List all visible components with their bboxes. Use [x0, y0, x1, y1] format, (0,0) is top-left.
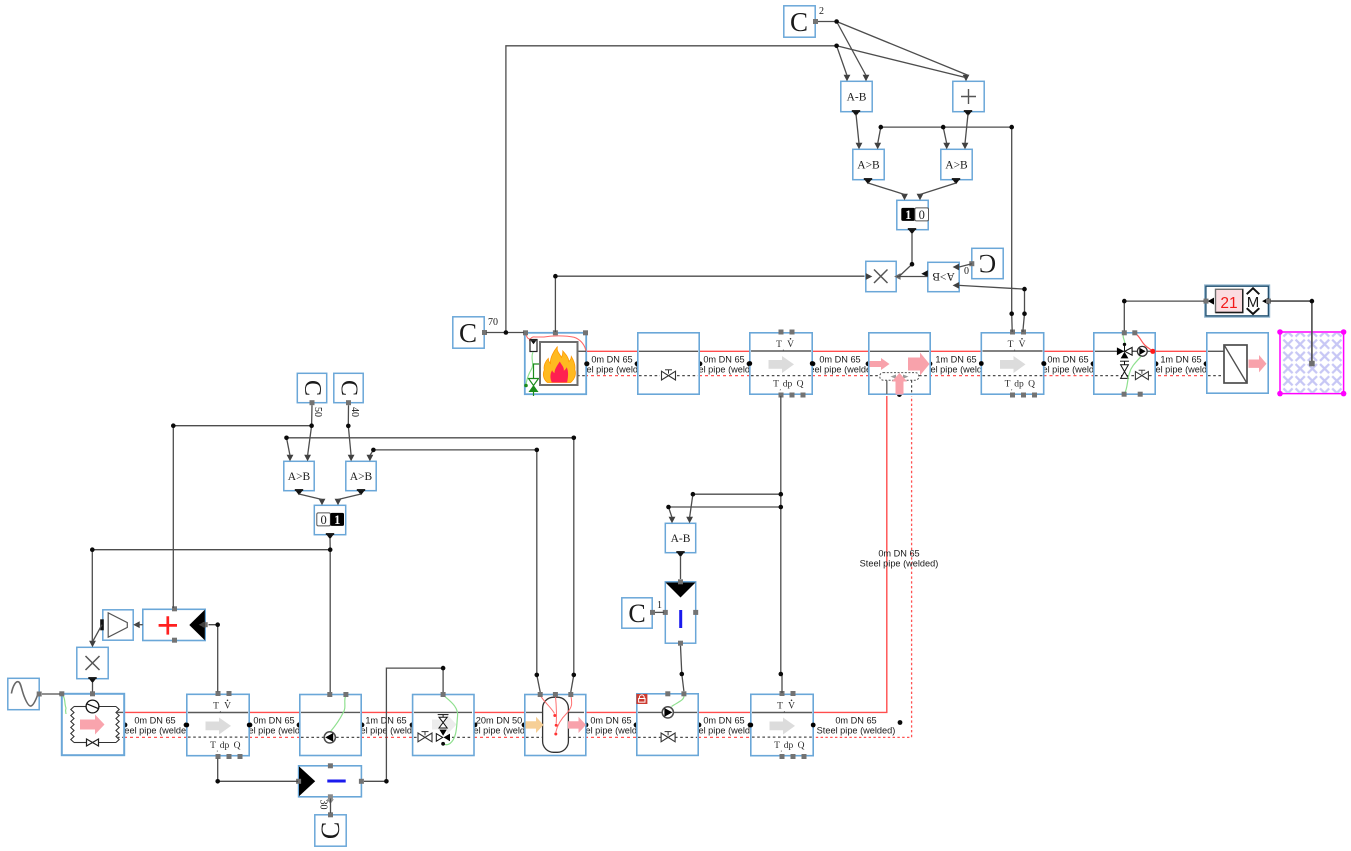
- node pipe port: [123, 723, 128, 728]
- comparator A>B (bottom left): [284, 455, 314, 496]
- wire return pipe: [1044, 375, 1095, 377]
- wire supply pipe: [1152, 350, 1207, 352]
- wire PLUS out to A>B right: [965, 114, 968, 144]
- wire display D2 bottom to C30: [330, 799, 332, 814]
- wire sensor S3 T out to PLUS2: [209, 625, 218, 692]
- node junction: [691, 492, 696, 497]
- svg-text:20m DN 50: 20m DN 50: [476, 716, 522, 726]
- node junction: [910, 262, 915, 267]
- svg-text:0m DN 65: 0m DN 65: [878, 549, 919, 559]
- wire supply pipe: [585, 711, 637, 713]
- node pipe port: [928, 361, 933, 366]
- svg-text:Steel pipe (welded): Steel pipe (welded): [116, 725, 195, 735]
- node pipe port: [585, 361, 590, 366]
- sensor S4 (bottom row second sensor): [748, 691, 815, 759]
- pipe return top row (red dashed segments): [585, 375, 1207, 377]
- wire C50 out through rail to A>B: [308, 405, 312, 455]
- svg-text:0m DN 65: 0m DN 65: [590, 716, 631, 726]
- display D2 (horizontal display with blue dash): [296, 763, 364, 804]
- heat-pump HP1: [59, 691, 124, 755]
- node junction: [535, 448, 540, 453]
- node pipe port: [866, 361, 871, 366]
- node junction: [779, 492, 784, 497]
- svg-text:A-B: A-B: [671, 533, 691, 545]
- comparator A>B (top right): [941, 143, 972, 184]
- node junction: [284, 436, 289, 441]
- svg-text:A-B: A-B: [847, 92, 867, 104]
- svg-text:40: 40: [349, 407, 360, 417]
- node junction: [779, 672, 784, 677]
- node junction: [879, 125, 884, 130]
- svg-text:C: C: [459, 318, 477, 348]
- wire return pipe: [1152, 375, 1207, 377]
- wire return pipe: [698, 736, 751, 738]
- svg-text:30: 30: [318, 800, 329, 810]
- svg-text:A>B: A>B: [288, 471, 311, 483]
- wire tank T out rail2: [287, 438, 574, 692]
- node pipe port: [698, 361, 703, 366]
- svg-text:C: C: [979, 249, 996, 278]
- wire A>B1 out to switch: [868, 183, 905, 195]
- svg-text:2: 2: [819, 6, 824, 17]
- wire C40 out to A>B: [348, 405, 351, 455]
- wire supply pipe: [812, 350, 869, 352]
- pump P1 (return pump block): [300, 692, 361, 756]
- pipe supply top row (red solid segments): [585, 350, 1207, 352]
- node junction: [215, 779, 220, 784]
- node pipe port: [810, 723, 815, 728]
- pipe supply bottom row (red solid segments): [124, 711, 751, 713]
- sensor S1 (top row T,V sensor): [747, 330, 814, 398]
- node pipe port: [1154, 361, 1159, 366]
- wire boiler top to X input: [555, 276, 864, 332]
- wire top rail to PLUS input: [837, 46, 966, 78]
- constant C70 (boiler setpoint): [453, 317, 498, 348]
- comparator A<B (rotated 180): [921, 262, 959, 291]
- node junction: [90, 547, 95, 552]
- svg-text:A>B: A>B: [350, 471, 373, 483]
- svg-text:21: 21: [1220, 295, 1237, 312]
- wire switch out down: [899, 233, 912, 277]
- svg-text:C: C: [316, 822, 345, 839]
- switch SW1 (1|0 selector): [897, 194, 929, 234]
- node pipe port: [410, 723, 415, 728]
- node junction: [572, 436, 577, 441]
- node pipe port: [1204, 361, 1209, 366]
- node pipe port: [1091, 361, 1096, 366]
- tee T1 (junction block with pink arrows): [869, 333, 930, 395]
- svg-text:0: 0: [320, 513, 326, 527]
- svg-text:1: 1: [334, 513, 340, 527]
- wire mixer M1 to actuator M21: [1124, 301, 1204, 330]
- wire sensor S2 to rail y127: [1011, 127, 1014, 332]
- node pipe port: [697, 723, 702, 728]
- node junction: [834, 19, 839, 24]
- node pipe port dots bottom row: [123, 720, 903, 727]
- wire room R1 to actuator M21: [1270, 301, 1312, 362]
- wire supply pipe: [474, 711, 525, 713]
- node junction: [1022, 287, 1027, 292]
- svg-text:Steel pipe (welded): Steel pipe (welded): [817, 725, 896, 735]
- room R1 (magenta hatched room block): [1277, 329, 1346, 396]
- node junction: [171, 423, 176, 428]
- sensor S3 (bottom row first sensor): [184, 691, 251, 759]
- constant C0 (rotated C constant): [964, 248, 1003, 278]
- wire rail to A-B mid input A: [669, 507, 781, 518]
- node junction: [441, 666, 446, 671]
- wire display D2 right to valve V2: [364, 668, 443, 781]
- node junction: [328, 547, 333, 552]
- wire return pipe: [812, 375, 869, 377]
- wire supply pipe: [1044, 350, 1095, 352]
- wire supply pipe: [124, 711, 187, 713]
- wire sensor rail y127: [881, 126, 1012, 128]
- node pipe port: [748, 723, 753, 728]
- wire display D1 out to pump P2: [681, 646, 684, 692]
- svg-text:0m DN 65: 0m DN 65: [703, 355, 744, 365]
- svg-text:C: C: [628, 599, 645, 628]
- wire C2 to A-B input B: [837, 22, 866, 76]
- svg-text:C: C: [299, 380, 325, 396]
- node junction: [572, 673, 577, 678]
- wire return pipe: [361, 736, 413, 738]
- svg-text:0m DN 65: 0m DN 65: [819, 355, 860, 365]
- wire supply pipe: [699, 350, 750, 352]
- node junction: [666, 505, 671, 510]
- wire A<B out to X: [897, 276, 928, 278]
- wire supply pipe: [361, 711, 413, 713]
- wire C1 out to display D1: [655, 611, 664, 613]
- node pipe port: [297, 723, 302, 728]
- wire switch SW2 out to rail y550: [92, 538, 330, 641]
- wire return pipe: [124, 736, 187, 738]
- svg-text:0m DN 65: 0m DN 65: [1047, 355, 1088, 365]
- node junction: [346, 424, 351, 429]
- wire rail to A>B2 input A: [943, 127, 947, 143]
- node pipe port: [1042, 361, 1047, 366]
- wire rail y550 down to pump P1: [329, 550, 331, 692]
- svg-text:0m DN 65: 0m DN 65: [835, 716, 876, 726]
- comparator A>B (top left): [853, 143, 884, 184]
- svg-text:1: 1: [905, 208, 911, 222]
- wire rail1 down to PLUS2: [172, 426, 174, 608]
- wire PLUS2 out to gain: [135, 624, 143, 626]
- node junction: [680, 672, 685, 677]
- svg-text:Steel pipe (welded): Steel pipe (welded): [860, 558, 939, 568]
- svg-text:A>B: A>B: [857, 160, 880, 172]
- boiler U-boiler (flame block): [523, 330, 589, 396]
- node small port square in room: [1309, 361, 1315, 367]
- multiplier X2 (bottom): [77, 641, 108, 684]
- node junction: [1009, 311, 1014, 316]
- wire X2 out to heat pump: [92, 683, 94, 692]
- node pipe port: [897, 392, 902, 397]
- svg-text:C: C: [790, 7, 808, 37]
- wire supply pipe: [698, 711, 751, 713]
- svg-text:0m DN 65: 0m DN 65: [134, 716, 175, 726]
- node junction: [553, 274, 558, 279]
- constant C2 (setpoint C with exponent 2): [784, 6, 824, 37]
- node pipe port: [898, 720, 903, 725]
- wire C70 out to boiler: [486, 332, 524, 334]
- svg-text:70: 70: [488, 317, 498, 328]
- node pipe port: [473, 723, 478, 728]
- node pipe port: [360, 723, 365, 728]
- wire A<B input B from sensor S2: [959, 285, 1024, 332]
- source SINE (sine wave generator): [8, 678, 42, 709]
- node junction: [309, 423, 314, 428]
- wire top rail to A-B input A: [837, 46, 847, 76]
- node pipe port: [584, 723, 589, 728]
- heat-exchanger HX1 (radiator block): [1207, 333, 1268, 393]
- wire rail to A-B mid input B: [690, 494, 781, 517]
- wire supply pipe: [929, 350, 982, 352]
- constant C50 (rotated): [297, 373, 326, 417]
- wire C0 out to A<B input: [959, 264, 972, 267]
- wire rail to A>B1 input B: [878, 127, 881, 143]
- node junction: [1122, 299, 1127, 304]
- wire C2 output: [818, 21, 837, 23]
- pipe return bottom row (red dashed segments): [124, 736, 751, 738]
- node junction: [371, 448, 376, 453]
- wire supply pipe: [249, 711, 300, 713]
- node junction: [1310, 299, 1315, 304]
- node pipe port: [981, 361, 986, 366]
- node junction: [779, 505, 784, 510]
- pipe riser return (red dashed L from bottom row up to tee): [811, 396, 912, 737]
- wire return pipe: [585, 736, 637, 738]
- svg-text:1m DN 65: 1m DN 65: [1160, 355, 1201, 365]
- valve V1 (shutoff valve block, top row): [638, 333, 699, 394]
- node junction: [215, 622, 220, 627]
- subtract A-B (middle): [665, 517, 695, 558]
- switch SW2 (0|1 selector): [314, 499, 345, 540]
- node junction: [504, 330, 509, 335]
- wire return pipe: [474, 736, 525, 738]
- svg-text:0m DN 65: 0m DN 65: [591, 355, 632, 365]
- wire A>B out to switch SW2 left: [299, 494, 322, 500]
- constant C40 (rotated): [334, 373, 363, 417]
- constant C30 (rotated): [315, 800, 346, 847]
- adder PLUS (top): [953, 75, 984, 116]
- node pipe port: [522, 723, 527, 728]
- valve V2 (3-way diverter valve block, bottom row): [413, 692, 474, 756]
- svg-text:1: 1: [657, 600, 662, 611]
- wire tank T out rail3: [370, 450, 540, 692]
- node pipe port: [747, 361, 752, 366]
- wire A>B out to switch SW2 right: [338, 494, 361, 500]
- svg-text:50: 50: [312, 407, 323, 417]
- wire supply pipe: [585, 350, 638, 352]
- node pipe port dots top row: [585, 361, 1209, 397]
- node junction: [941, 125, 946, 130]
- svg-text:C: C: [336, 380, 362, 396]
- node pipe port: [634, 723, 639, 728]
- wire return pipe: [699, 375, 750, 377]
- svg-text:A>B: A>B: [932, 270, 955, 282]
- pipe riser supply (red solid L from bottom row up to tee): [811, 396, 887, 712]
- mixer M1 (3-way valve + pump block): [1094, 330, 1156, 396]
- gain G1 (triangle block): [100, 610, 140, 640]
- svg-text:0m DN 65: 0m DN 65: [703, 716, 744, 726]
- actuator M21 (setpoint 21 with motor): [1204, 286, 1272, 317]
- wire return pipe: [585, 375, 638, 377]
- tank TK1 (storage tank block): [525, 692, 586, 756]
- wire A-B out to A>B left: [856, 114, 859, 144]
- node pipe port: [184, 723, 189, 728]
- svg-text:1m DN 65: 1m DN 65: [935, 355, 976, 365]
- display D1 (vertical bar display with arrow): [663, 579, 698, 645]
- wire return pipe: [249, 736, 300, 738]
- pump P2 (locked pump block): [636, 691, 698, 755]
- multiplier X (top): [866, 261, 901, 291]
- wire C2 to PLUS input: [837, 22, 969, 76]
- wire A-B mid out to display D1: [680, 556, 682, 579]
- wire sine out to heat pump: [42, 693, 60, 695]
- svg-text:0: 0: [919, 208, 925, 222]
- svg-text:A>B: A>B: [945, 160, 968, 172]
- sensor S2 (top row second T,V sensor): [979, 330, 1046, 398]
- constant C1: [622, 598, 662, 628]
- wire return pipe: [929, 375, 982, 377]
- node junction: [1009, 125, 1014, 130]
- node junction: [834, 44, 839, 49]
- node pipe port: [248, 723, 253, 728]
- node pipe port: [635, 361, 640, 366]
- wire sensor S3 bottom out to display D2: [218, 759, 298, 782]
- wire sensor S1 down-rail: [781, 396, 782, 693]
- subtract A-B (top): [841, 75, 872, 116]
- node junction: [1022, 311, 1027, 316]
- comparator A>B (bottom right): [346, 455, 376, 496]
- svg-text:0m DN 65: 0m DN 65: [253, 716, 294, 726]
- wire rail1 y425.7: [173, 425, 311, 427]
- pipe labels: [116, 355, 1221, 736]
- node junction: [535, 673, 540, 678]
- node pipe port: [811, 361, 816, 366]
- wire A>B2 out to switch: [920, 183, 956, 195]
- node junction: [384, 779, 389, 784]
- wire boiler-C70 node to top rail: [506, 46, 837, 333]
- wire gain out to X2: [93, 625, 102, 642]
- adder PLUS2 (red plus with arrow display): [143, 606, 208, 642]
